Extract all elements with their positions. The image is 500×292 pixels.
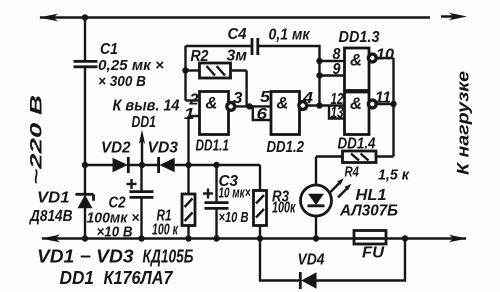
output 3 bubble xyxy=(227,103,235,111)
LED arrows xyxy=(331,182,341,192)
wire pin14 arrow xyxy=(141,136,143,165)
pin 8 stub xyxy=(320,60,345,62)
svg-text:~220 В: ~220 В xyxy=(27,95,46,185)
node pin1/R1 junction xyxy=(185,162,191,168)
svg-text:VD1: VD1 xyxy=(37,190,70,207)
svg-text:×10 В: ×10 В xyxy=(219,209,249,226)
output 10 bubble xyxy=(368,54,376,62)
node R2 right junction xyxy=(246,103,252,109)
gate DD1.1 xyxy=(200,92,229,135)
svg-text:VD4: VD4 xyxy=(298,252,325,269)
zener VD1 xyxy=(76,193,94,196)
capacitor C2 xyxy=(140,165,142,191)
diode VD3 xyxy=(157,157,160,173)
svg-text:0,1 мк: 0,1 мк xyxy=(269,27,311,44)
wire top rail left arrowhead xyxy=(39,14,58,22)
svg-text:C4: C4 xyxy=(228,26,247,43)
wire pin2 vertical xyxy=(184,46,186,101)
fuse FU xyxy=(354,231,386,245)
wire output4 to pin12 xyxy=(306,104,345,106)
svg-text:R2: R2 xyxy=(191,48,209,65)
pin 6 tie and stub xyxy=(253,106,271,120)
svg-text:13: 13 xyxy=(331,105,344,122)
diode VD2 xyxy=(113,158,129,172)
svg-text:R4: R4 xyxy=(345,164,360,181)
svg-text:10 мк×: 10 мк× xyxy=(219,185,251,202)
wire VD4 loop xyxy=(260,239,300,281)
resistor R4 xyxy=(343,151,377,163)
wire output11 xyxy=(375,103,394,105)
node diode row left xyxy=(82,162,88,168)
svg-text:FU: FU xyxy=(362,245,384,262)
svg-text:100 к: 100 к xyxy=(152,222,179,239)
wire diode row mid xyxy=(128,164,159,166)
node top junction xyxy=(82,14,88,20)
svg-text:VD3: VD3 xyxy=(148,140,179,157)
resistor R1 xyxy=(187,165,189,194)
wire output3 to pin5 xyxy=(235,105,272,107)
node rail LED xyxy=(313,235,319,241)
svg-text:К176ЛА7: К176ЛА7 xyxy=(104,268,174,288)
svg-text:АЛ307Б: АЛ307Б xyxy=(339,203,398,220)
svg-text:100к: 100к xyxy=(272,200,296,217)
wire left vertical upper xyxy=(84,18,86,62)
wire left vertical lower xyxy=(84,208,86,239)
gate DD1.3 xyxy=(345,48,370,91)
capacitor C1 xyxy=(74,60,98,63)
node pins89 vertical joins xyxy=(316,102,322,108)
svg-text:1,5 к: 1,5 к xyxy=(378,167,410,184)
wire VD4 right xyxy=(317,239,406,281)
svg-text:6: 6 xyxy=(257,106,268,123)
node R2 left junction xyxy=(182,67,188,73)
svg-text:3м: 3м xyxy=(227,48,248,65)
svg-text:&: & xyxy=(350,95,362,113)
svg-text:&: & xyxy=(277,95,289,113)
wire outputs vertical to R4 xyxy=(392,58,394,157)
node output 11 junction xyxy=(390,101,396,107)
node C2 / pin14 junction xyxy=(139,162,145,168)
node rail C2 xyxy=(138,235,144,241)
wire R2 left xyxy=(186,69,200,71)
resistor R3 xyxy=(259,165,261,191)
svg-text:× 300 В: × 300 В xyxy=(98,73,146,90)
wire output10 xyxy=(375,57,394,59)
wire top rail right arrow xyxy=(441,15,460,17)
wire C4 loop left xyxy=(186,45,251,47)
svg-text:Д814В: Д814В xyxy=(28,208,72,225)
node C3 junction xyxy=(213,162,219,168)
svg-text:DD1.3: DD1.3 xyxy=(339,29,380,46)
svg-text:10: 10 xyxy=(376,47,394,64)
node rail FU right xyxy=(402,235,408,241)
node rail left xyxy=(82,235,88,241)
wire diode row xyxy=(85,164,114,166)
resistor R2 xyxy=(200,63,231,78)
svg-text:9: 9 xyxy=(333,61,341,78)
wire top rail xyxy=(40,16,430,18)
svg-text:VD1 − VD3: VD1 − VD3 xyxy=(37,247,134,267)
pin 13 tie and stub xyxy=(329,106,345,119)
LED HL1 xyxy=(315,157,317,187)
capacitor C3 xyxy=(215,165,217,202)
wire C4 loop right xyxy=(259,46,320,106)
node rail R3 xyxy=(257,235,263,241)
svg-text:DD1: DD1 xyxy=(60,268,95,288)
output 4 bubble xyxy=(299,102,307,110)
output 11 bubble xyxy=(368,100,376,108)
svg-text:К нагрузке: К нагрузке xyxy=(455,71,473,175)
svg-text:DD1.1: DD1.1 xyxy=(196,138,230,155)
gate DD1.2 xyxy=(271,92,300,135)
pin 9 stub xyxy=(320,74,345,76)
pin 1 stub xyxy=(189,115,200,117)
diode VD4 xyxy=(299,272,302,289)
gate DD1.4 xyxy=(345,92,370,135)
svg-text:&: & xyxy=(350,52,362,70)
svg-text:DD1.2: DD1.2 xyxy=(267,139,305,156)
node rail C3 xyxy=(213,235,219,241)
svg-text:VD2: VD2 xyxy=(101,140,131,157)
svg-text:DD1: DD1 xyxy=(132,114,157,131)
wire bottom rail xyxy=(42,237,466,239)
node rail R1 xyxy=(185,235,191,241)
pin 2 stub xyxy=(186,99,200,101)
capacitor C4 xyxy=(251,38,254,55)
svg-text:КД105Б: КД105Б xyxy=(143,247,194,267)
svg-text:HL1: HL1 xyxy=(356,187,387,204)
svg-text:&: & xyxy=(206,95,218,113)
svg-text:3: 3 xyxy=(233,90,243,107)
wire diode row right xyxy=(175,164,260,166)
svg-text:К выв. 14: К выв. 14 xyxy=(113,98,180,115)
svg-text:5: 5 xyxy=(260,89,270,106)
svg-text:C1: C1 xyxy=(100,41,118,58)
svg-text:0,25 мк ×: 0,25 мк × xyxy=(98,57,164,74)
wire left vertical mid xyxy=(84,67,86,195)
wire pin1 vertical xyxy=(187,116,189,165)
